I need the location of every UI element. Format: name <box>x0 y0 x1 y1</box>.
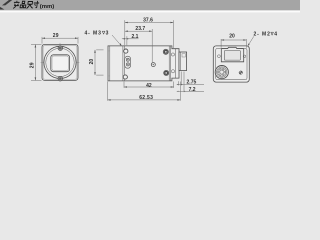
front bottom screw <box>58 76 63 81</box>
leader 4-M3 <box>112 35 122 46</box>
RJ45 socket cutout <box>224 51 240 61</box>
dim 7.2 <box>177 72 204 93</box>
small rear circle bottom <box>171 70 174 73</box>
power connector outer <box>215 66 228 79</box>
dim 20 <box>221 39 246 48</box>
led hole crosshair <box>239 71 242 74</box>
产 <box>13 1 19 8</box>
rear bottom screw <box>164 70 169 75</box>
dim 2.75 <box>177 72 204 86</box>
svg-text:2.75: 2.75 <box>187 79 197 85</box>
rear connector block <box>179 52 187 71</box>
center hole <box>151 63 155 67</box>
back body square <box>213 46 249 82</box>
groove bottom screw <box>123 75 127 79</box>
front view inner edge <box>43 46 77 80</box>
svg-text:7.2: 7.2 <box>189 87 196 93</box>
svg-text:(mm): (mm) <box>40 4 54 10</box>
svg-text:20: 20 <box>89 59 95 65</box>
header underline strip <box>0 9 300 12</box>
leader 2-M2 <box>248 36 254 46</box>
dim 62.53 <box>108 82 181 101</box>
svg-text:62.53: 62.53 <box>139 95 153 101</box>
centerline ticks <box>41 61 44 63</box>
dim 37.6 <box>125 20 174 48</box>
lens mount inner circle <box>46 48 74 76</box>
power connector ring <box>217 67 227 77</box>
svg-text:37.6: 37.6 <box>143 18 153 24</box>
header logo dark chevron <box>2 0 12 5</box>
svg-text:29: 29 <box>53 33 59 39</box>
dim 23.7 <box>125 29 152 62</box>
side body <box>108 46 179 81</box>
lens ring top edge <box>108 50 110 52</box>
dim 42 <box>124 82 174 88</box>
svg-text:3: 3 <box>106 31 109 37</box>
尺 <box>27 2 33 9</box>
svg-text:4: 4 <box>274 32 277 38</box>
svg-text:20: 20 <box>229 34 235 40</box>
small rear circle top <box>171 53 174 56</box>
sensor window inner <box>52 56 68 71</box>
header title CJK strokes 产品尺寸 <box>13 1 39 8</box>
front top screw <box>58 46 63 51</box>
front plate lip line <box>109 46 111 81</box>
dimension 29 left of front view <box>31 45 42 81</box>
品 <box>22 1 25 3</box>
svg-text:4- M3: 4- M3 <box>85 31 102 37</box>
RJ45 right screw <box>243 55 246 58</box>
flange seam left line <box>122 46 124 81</box>
lens ring bottom edge <box>108 75 110 77</box>
RJ45 housing with latch tab <box>221 47 243 62</box>
power connector pins <box>224 71 226 73</box>
header bar <box>0 0 300 10</box>
RJ45 left screw <box>218 55 221 58</box>
svg-text:42: 42 <box>146 83 152 89</box>
flange seam right line <box>124 46 126 81</box>
svg-text:2- M2: 2- M2 <box>254 32 271 38</box>
back inner panel <box>216 48 247 79</box>
lens mount outer circle <box>44 46 76 78</box>
back view <box>213 46 249 82</box>
dimension 29 top of front view <box>42 37 78 44</box>
side view <box>108 46 187 81</box>
svg-text:29: 29 <box>30 62 36 68</box>
groove middle detail <box>125 56 131 68</box>
寸 <box>34 1 39 7</box>
svg-text:2.1: 2.1 <box>132 34 139 40</box>
dimension 20 vertical between views <box>94 50 103 75</box>
groove top screw <box>124 49 128 53</box>
rear seam lines <box>168 46 170 81</box>
front view body square <box>42 44 78 80</box>
dim 2.1 <box>122 36 139 45</box>
rear top screw <box>163 49 168 54</box>
svg-text:23.7: 23.7 <box>135 26 145 32</box>
sensor window bezel <box>51 55 70 72</box>
